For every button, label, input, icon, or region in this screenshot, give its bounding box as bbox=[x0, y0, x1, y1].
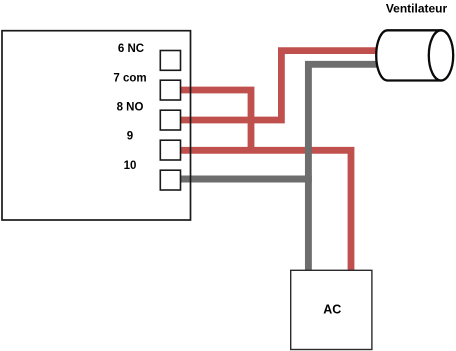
terminal 8 NO bbox=[160, 110, 180, 130]
svg-text:9: 9 bbox=[127, 131, 133, 143]
Ventilateur motor cylinder right rim ellipse bbox=[429, 30, 453, 80]
terminal 7 com bbox=[160, 80, 180, 100]
terminal 6 NC bbox=[160, 51, 180, 71]
wire gray: Ventilateur left, down to AC (crosses over wire 9) bbox=[308, 64, 381, 271]
svg-text:10: 10 bbox=[124, 160, 137, 172]
AC box bbox=[291, 270, 372, 349]
svg-text:7 com: 7 com bbox=[113, 73, 146, 85]
controller box fill bbox=[2, 31, 191, 220]
terminal 10 bbox=[160, 170, 180, 190]
svg-text:AC: AC bbox=[323, 302, 341, 316]
svg-text:6 NC: 6 NC bbox=[118, 43, 144, 55]
controller box border bbox=[2, 31, 191, 220]
wire 10: terminal 10 right to gray vertical bbox=[180, 176, 312, 183]
wire 7com: terminal 7 right then down to node on wire 9 bbox=[180, 90, 251, 150]
wire 8NO: terminal 8 right, up, right to Ventilateur bbox=[180, 51, 381, 120]
svg-text:Ventilateur: Ventilateur bbox=[386, 2, 448, 16]
Ventilateur motor cylinder body bbox=[376, 30, 441, 80]
terminal 9 bbox=[160, 140, 180, 160]
svg-text:8 NO: 8 NO bbox=[117, 102, 144, 114]
wire 9: terminal 9 right then down to AC bbox=[180, 150, 351, 271]
